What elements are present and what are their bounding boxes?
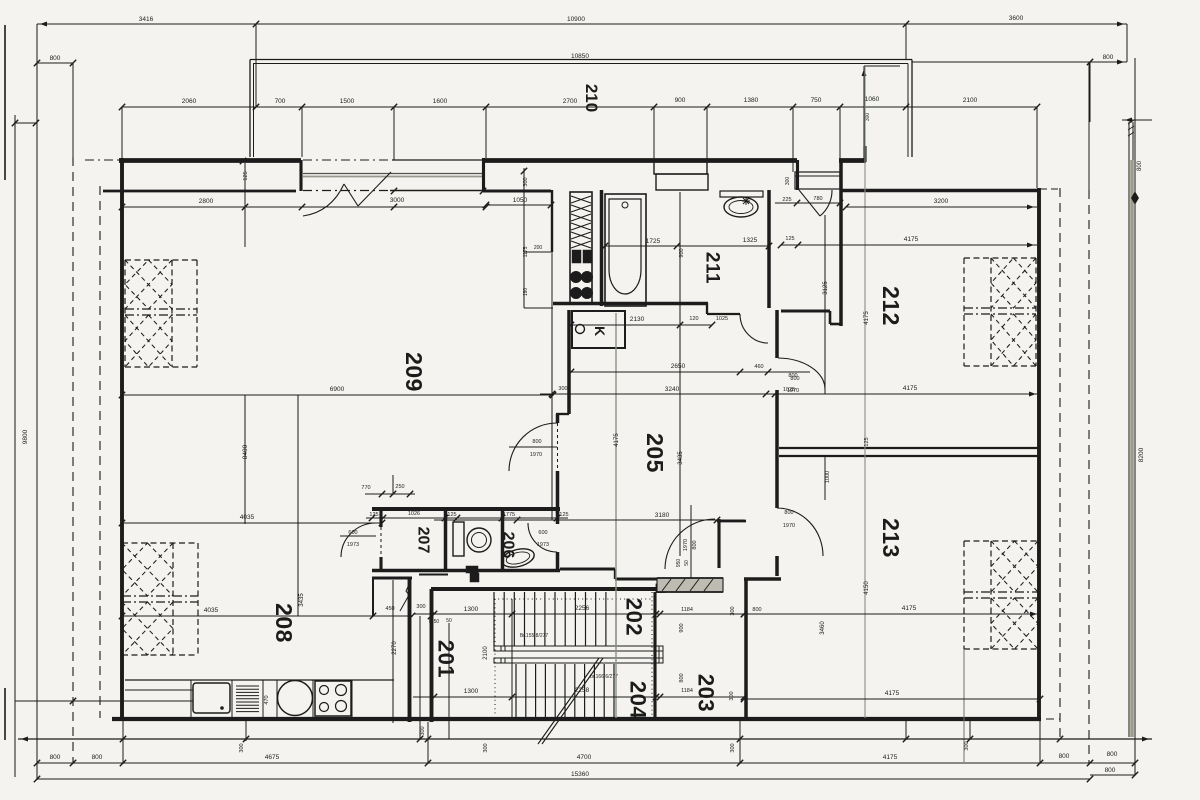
svg-text:4175: 4175 [864, 311, 870, 325]
svg-text:4150: 4150 [864, 581, 870, 595]
wc cistern top wall [720, 191, 763, 197]
svg-text:1060: 1060 [865, 96, 880, 103]
svg-text:300: 300 [865, 113, 871, 122]
svg-text:Br.155 8/277: Br.155 8/277 [520, 633, 549, 639]
svg-text:800: 800 [532, 439, 541, 445]
svg-text:300: 300 [483, 743, 489, 752]
svg-text:8200: 8200 [1138, 447, 1145, 462]
wall x409 kitchen east [408, 578, 412, 722]
svg-text:206: 206 [500, 532, 517, 559]
svg-text:213: 213 [878, 518, 904, 558]
balcony outline top double line [250, 59, 912, 61]
left dim vertical x15 [14, 115, 16, 777]
small dim y252 [524, 251, 551, 253]
svg-text:1025: 1025 [783, 387, 795, 393]
bidet oval room 206 [500, 546, 536, 570]
svg-text:6900: 6900 [330, 386, 345, 393]
svg-text:800: 800 [784, 510, 793, 516]
solid top of x1089 [1088, 62, 1090, 190]
205 west wall with door [556, 414, 560, 423]
dim y207 left (2800/3000) [122, 206, 486, 208]
dim vertical x906 [905, 24, 907, 60]
bathtub [605, 194, 646, 306]
dim 212 y207 (3200) [846, 206, 1037, 208]
svg-text:300: 300 [730, 743, 736, 752]
svg-text:1026: 1026 [408, 511, 420, 517]
west exterior wall [120, 158, 124, 719]
kitchen counter back edge [125, 679, 394, 681]
door 205 to 212 [778, 358, 825, 389]
dim y616 kitchen (4035) [122, 615, 413, 617]
left small dim y701 [15, 700, 125, 702]
svg-text:950: 950 [676, 559, 682, 568]
wc band top wall [372, 507, 560, 511]
svg-text:4035: 4035 [204, 607, 219, 614]
svg-text:202: 202 [622, 598, 647, 636]
svg-text:207: 207 [415, 527, 432, 554]
svg-text:2060: 2060 [182, 98, 197, 105]
svg-text:900: 900 [679, 623, 685, 632]
thick wall inner line x483-551 [483, 189, 551, 192]
shaft nook west wall [551, 190, 553, 252]
svg-text:201: 201 [434, 640, 459, 678]
svg-text:50: 50 [684, 560, 690, 566]
small dim line y66 [864, 65, 900, 67]
right thin line x1133 [1132, 122, 1134, 737]
zigzag break mark [400, 580, 411, 611]
svg-text:800: 800 [790, 376, 799, 382]
top dimension line 1 [37, 23, 1127, 25]
svg-text:2100: 2100 [483, 646, 489, 660]
dim y520 corridor (3180) [434, 519, 744, 521]
north wall right of window (thick, to entry) [483, 158, 797, 163]
bathroom south wall [553, 302, 708, 306]
dash corner SE [1046, 718, 1060, 720]
balcony right edge double [907, 64, 909, 158]
svg-text:2800: 2800 [199, 198, 214, 205]
wc cistern [453, 522, 464, 556]
left dim vertical x37 [36, 24, 38, 780]
small dim y120 right [1122, 119, 1152, 121]
svg-text:1050: 1050 [513, 197, 528, 204]
svg-text:750: 750 [811, 97, 822, 104]
stair door leaf line [690, 505, 692, 590]
door arc 206 [528, 523, 557, 552]
svg-text:1973: 1973 [537, 542, 549, 548]
svg-text:800: 800 [50, 754, 61, 761]
shaft black block 2 [583, 250, 592, 263]
svg-text:212: 212 [878, 286, 904, 326]
roof window marker room 213 [964, 540, 1038, 542]
bathroom dim y246 [605, 245, 769, 247]
svg-text:3240: 3240 [665, 386, 680, 393]
lobby bottom wall [781, 309, 830, 312]
hatched landing wall band [657, 578, 723, 592]
north wall step at x483 [482, 158, 485, 191]
jamb block 206b [470, 573, 479, 582]
svg-text:1775: 1775 [503, 512, 515, 518]
entry door leaf [799, 190, 820, 216]
svg-text:800: 800 [1137, 160, 1143, 171]
svg-text:211: 211 [702, 252, 723, 284]
svg-text:3200: 3200 [934, 198, 949, 205]
dim vertical x1090 upper [1089, 62, 1091, 122]
svg-text:800: 800 [1107, 751, 1118, 758]
kitchen counter line2 [125, 689, 193, 691]
shaft valve 4 [582, 288, 593, 299]
wc band bottom wall [372, 569, 560, 573]
svg-text:4035: 4035 [240, 514, 255, 521]
shaft valve 3 [571, 288, 582, 299]
dim vertical x256 [255, 24, 257, 107]
svg-text:1300: 1300 [464, 688, 479, 695]
stove burner 4 [336, 701, 347, 712]
shaft valve 1 [571, 272, 582, 283]
svg-text:210: 210 [582, 84, 601, 112]
svg-text:125: 125 [559, 512, 568, 518]
svg-text:800: 800 [692, 540, 698, 549]
svg-text:300: 300 [729, 691, 735, 700]
svg-text:3600: 3600 [1009, 15, 1024, 22]
svg-text:205: 205 [642, 433, 668, 473]
svg-text:10900: 10900 [567, 16, 585, 23]
dim vertical x298 [297, 395, 299, 616]
wall left of 207 to stair zone [372, 576, 412, 579]
svg-text:1380: 1380 [744, 97, 759, 104]
dim vertical x393 [392, 580, 394, 723]
svg-text:203: 203 [694, 674, 719, 712]
room 201 west wall [430, 589, 434, 722]
bathtub inner [609, 199, 641, 294]
svg-text:800: 800 [679, 673, 685, 682]
stove burner 3 [320, 703, 329, 712]
svg-text:800: 800 [1105, 767, 1116, 774]
dim vertical x552 [551, 303, 553, 520]
vent shaft rect [570, 192, 592, 303]
svg-text:3435: 3435 [299, 593, 305, 607]
svg-text:2700: 2700 [563, 98, 578, 105]
dim vertical x524 [523, 168, 525, 308]
svg-text:125: 125 [369, 512, 378, 518]
balcony left edge double [249, 60, 251, 158]
wc star mark [742, 197, 750, 205]
svg-text:800: 800 [1059, 753, 1070, 760]
svg-text:1184: 1184 [681, 607, 693, 613]
svg-text:4175: 4175 [902, 605, 917, 612]
svg-text:470: 470 [264, 695, 270, 704]
svg-text:2256: 2256 [575, 605, 590, 612]
svg-text:125: 125 [447, 512, 456, 518]
stair dims y697 [413, 696, 744, 698]
dims around 207/206 y518 [366, 517, 568, 519]
door arc 207 [341, 523, 376, 557]
svg-text:900: 900 [679, 248, 685, 257]
dash-dot stub left of NW corner [85, 159, 119, 161]
jamb block 206a [466, 566, 478, 573]
stove burner 2 [336, 685, 347, 696]
bottom dim line y739 [18, 738, 1152, 740]
room 207 west wall + door [379, 509, 382, 527]
svg-text:200: 200 [534, 245, 543, 251]
stair dims y614 [413, 613, 744, 615]
svg-text:780: 780 [813, 196, 822, 202]
dim y394 (3240) [540, 393, 775, 395]
wall 212/213 double [779, 447, 1039, 449]
svg-text:300: 300 [785, 177, 791, 186]
svg-text:700: 700 [275, 98, 286, 105]
svg-text:2650: 2650 [671, 363, 686, 370]
page edge left upper [4, 25, 6, 180]
wc middle/206 divider [501, 509, 505, 572]
svg-text:3180: 3180 [655, 512, 670, 519]
dashed eaves line left x73 [72, 157, 74, 764]
entry side wall stubs [796, 160, 799, 190]
corridor/stair wall y589 [431, 587, 660, 591]
entry door swing arc [820, 190, 832, 216]
dim line y107 across top [122, 106, 1037, 108]
wc bowl inner [472, 533, 487, 548]
kitchen counter half line [125, 700, 193, 702]
bathroom door arc [740, 314, 768, 343]
svg-text:1970: 1970 [683, 539, 689, 551]
dashed eaves line right x1089 [1088, 190, 1090, 763]
kitchen separators [190, 680, 192, 717]
dim line x680 [679, 192, 681, 556]
svg-text:125: 125 [864, 437, 870, 446]
bathroom right wall [767, 190, 771, 308]
svg-text:1184: 1184 [681, 688, 693, 694]
svg-text:300: 300 [239, 743, 245, 752]
section line x616 [615, 313, 617, 718]
svg-text:3000: 3000 [390, 197, 405, 204]
corridor stepped south wall [560, 567, 615, 570]
north wall left segment (thick cavity wall) [119, 158, 301, 163]
corridor dim y325 [571, 324, 712, 326]
bathtub drain [622, 202, 628, 208]
svg-text:2100: 2100 [963, 97, 978, 104]
right thin line x1129 [1128, 122, 1130, 737]
dim y372 (2650/460) [571, 371, 810, 373]
roof window marker room 212 [964, 257, 1036, 259]
window casement leaf 1 [344, 184, 358, 206]
svg-text:204: 204 [626, 681, 651, 719]
door jamb block [656, 584, 665, 593]
top dimension line 2 right part [912, 61, 1127, 63]
svg-text:4700: 4700 [577, 754, 592, 761]
svg-text:800: 800 [92, 754, 103, 761]
dim y205 (1050) [486, 204, 551, 206]
dim vertical x449 [448, 623, 450, 739]
door 205 to 213 [777, 508, 823, 556]
svg-text:br.166 6/277: br.166 6/277 [590, 674, 618, 680]
wall 213 west jog [744, 577, 781, 581]
svg-text:2270: 2270 [392, 641, 398, 655]
dim vertical x825 [824, 215, 826, 394]
svg-text:4175: 4175 [903, 385, 918, 392]
window casement arc [303, 184, 344, 216]
svg-text:4175: 4175 [885, 690, 900, 697]
entry niche [795, 172, 840, 189]
north wall of room 212 [841, 189, 1040, 193]
door arc 205 west [509, 423, 557, 471]
chimney flue circle [576, 325, 585, 334]
svg-text:300: 300 [416, 604, 425, 610]
svg-text:225: 225 [782, 197, 791, 203]
svg-text:1600: 1600 [433, 98, 448, 105]
room 206 east wall + door [556, 509, 560, 524]
svg-text:4175: 4175 [883, 754, 898, 761]
diamond mark right [1132, 192, 1139, 204]
dim drop lines from y107 [121, 107, 123, 160]
kitchen stove [315, 681, 351, 716]
svg-text:125: 125 [785, 236, 794, 242]
room 207 east wall [444, 509, 448, 572]
dim vertical x1127 [1126, 24, 1128, 62]
chimney block at north wall [654, 161, 707, 174]
right dim vertical x1135 [1134, 58, 1136, 775]
east exterior wall [1037, 188, 1041, 719]
svg-text:600: 600 [538, 530, 547, 536]
roof window marker room 209 [125, 259, 197, 261]
svg-text:2258: 2258 [575, 687, 590, 694]
shaft hatch [571, 196, 591, 203]
svg-text:120: 120 [689, 316, 698, 322]
stair door arc [665, 519, 715, 569]
small dim y308 [524, 307, 553, 309]
svg-text:4675: 4675 [265, 754, 280, 761]
right gray band [1130, 160, 1134, 737]
dim 212/213 y394 [766, 393, 1039, 395]
corridor wall jog [556, 413, 569, 415]
svg-text:9800: 9800 [22, 429, 29, 444]
chimney box K [572, 311, 625, 348]
stair stringer band lower [494, 658, 663, 663]
dim y523 (4035 upper) [122, 522, 382, 524]
svg-text:3416: 3416 [139, 16, 154, 23]
svg-text:770: 770 [361, 485, 370, 491]
small dims above 207 y494 [365, 493, 415, 495]
dim vertical x245 [244, 395, 246, 524]
dim y395 (6900) [122, 394, 553, 396]
svg-text:300: 300 [964, 741, 970, 750]
stair upper flight treads [493, 592, 495, 646]
bottom dim line y763 [37, 762, 1135, 764]
big window band x303-483 [303, 159, 392, 161]
svg-text:300: 300 [420, 726, 426, 735]
lobby west wall segment [775, 310, 779, 358]
svg-text:3435: 3435 [678, 451, 684, 465]
svg-text:300: 300 [558, 386, 567, 392]
svg-text:3460: 3460 [820, 621, 826, 635]
svg-text:3125: 3125 [823, 281, 829, 295]
stair dotted guides [494, 598, 652, 600]
svg-text:1500: 1500 [340, 98, 355, 105]
kitchen round unit [278, 681, 313, 716]
svg-text:1025: 1025 [716, 316, 728, 322]
right hatch marks [1128, 120, 1134, 136]
svg-text:K: K [592, 326, 608, 336]
svg-text:8400: 8400 [242, 444, 249, 459]
svg-text:800: 800 [1103, 54, 1114, 61]
svg-text:1970: 1970 [783, 523, 795, 529]
svg-text:15360: 15360 [571, 771, 589, 778]
svg-text:4175: 4175 [904, 236, 919, 243]
roof window marker room 208 [122, 542, 198, 544]
top dimension line 2 (800 left) [37, 62, 73, 64]
bathroom west wall [600, 190, 604, 306]
svg-text:800: 800 [752, 607, 761, 613]
section line x865 [864, 66, 866, 718]
bottom connector verticals [122, 721, 124, 764]
left small dim y123 [14, 122, 37, 124]
svg-text:B.50: B.50 [429, 619, 440, 625]
svg-text:250: 250 [395, 484, 404, 490]
svg-text:209: 209 [401, 352, 427, 392]
kitchen hatched unit [236, 685, 259, 687]
lobby/212 walls lower segments of x777 [775, 390, 779, 508]
svg-text:2130: 2130 [630, 316, 645, 323]
stair/corridor wall x655 [653, 592, 656, 718]
svg-text:900: 900 [675, 97, 686, 104]
dash stub NE corner [1040, 188, 1060, 190]
dashed eaves line right x1060 [1059, 188, 1061, 738]
svg-text:1300: 1300 [464, 606, 479, 613]
thin drop line x964 [963, 649, 965, 762]
south exterior wall [112, 717, 1041, 721]
dim vertical x864 [863, 66, 865, 158]
stove burner 1 [320, 686, 329, 695]
dim 212 y245 (4175) [781, 244, 1037, 246]
bottom dim line y779 [37, 778, 1090, 780]
svg-text:800: 800 [50, 55, 61, 62]
corridor nook walls x719 [717, 519, 720, 568]
corridor west wall upper [567, 310, 571, 414]
kitchen sink [193, 683, 230, 713]
page edge left lower [4, 688, 6, 740]
stair stringer band upper [494, 646, 663, 651]
svg-text:1725: 1725 [646, 238, 661, 245]
svg-text:1973: 1973 [347, 542, 359, 548]
window casement leaf 2 [358, 172, 391, 206]
left dim vertical x73 [72, 63, 74, 157]
svg-text:125: 125 [243, 171, 249, 180]
svg-text:4175: 4175 [614, 433, 620, 447]
shaft black block 1 [572, 250, 581, 263]
svg-text:1325: 1325 [743, 237, 758, 244]
svg-text:1000: 1000 [825, 471, 831, 483]
dim 213 y614 [744, 613, 1040, 615]
dim vertical x512 [511, 599, 513, 717]
dashed eaves line left x100 [99, 186, 101, 718]
dim 213 y699 [744, 698, 1040, 700]
wc bowl outer [467, 528, 491, 552]
svg-text:460: 460 [754, 364, 763, 370]
bathroom south wall jog [706, 303, 708, 314]
shaft valve 2 [582, 272, 593, 283]
svg-text:208: 208 [271, 603, 297, 643]
stair break diagonal [538, 658, 599, 744]
svg-text:600: 600 [348, 530, 357, 536]
stair lower flight treads [515, 664, 517, 717]
svg-text:1970: 1970 [530, 452, 542, 458]
